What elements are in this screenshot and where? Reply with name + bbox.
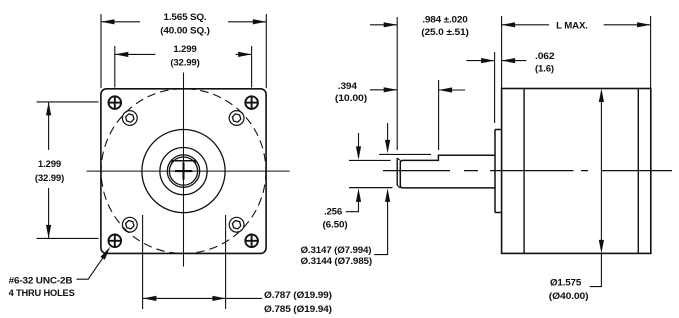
dim .984 / L MAX extension line at mounting face: [501, 16, 503, 88]
svg-text:Ø.785 (Ø19.94): Ø.785 (Ø19.94): [264, 304, 332, 315]
L MAX dimension line left arrow (shared with .984 right arrow): [502, 22, 549, 27]
rear endbell line: [637, 89, 639, 254]
dim .256 bottom arrow (up) and leader to text: [346, 188, 361, 211]
dim .394 left arrow: [370, 87, 397, 92]
svg-text:1.299: 1.299: [38, 159, 61, 170]
L MAX right extension line: [650, 16, 652, 88]
svg-text:#6-32 UNC-2B: #6-32 UNC-2B: [9, 276, 73, 287]
svg-text:(Ø40.00): (Ø40.00): [549, 291, 589, 302]
dim .062 right arrow: [502, 58, 527, 63]
corner hole top-left: [108, 96, 122, 110]
dim .984 left outside arrow: [370, 22, 397, 27]
shaft outer circle: [167, 155, 199, 187]
svg-text:(10.00): (10.00): [335, 93, 367, 104]
svg-text:(1.6): (1.6): [535, 64, 554, 75]
dimension 1.565 SQ extension lines: [101, 14, 266, 88]
hex screw bottom-right: [229, 217, 244, 232]
corner hole bottom-right: [245, 234, 259, 248]
dimension 1.299 horizontal line with arrows: [115, 52, 252, 57]
dimension 1.299 horizontal extension lines: [115, 46, 252, 88]
flange square outline: [101, 89, 266, 254]
dimension 1.299 vertical extension lines: [37, 102, 99, 239]
boss bottom edge: [495, 212, 502, 214]
vertical centerline front view: [183, 73, 185, 267]
pilot diameter dimension line with arrows: [143, 296, 262, 301]
dim .256 top arrow (down): [356, 133, 361, 160]
svg-text:(32.99): (32.99): [170, 58, 199, 69]
shaft end chamfer top: [397, 158, 400, 160]
pilot boss circle: [142, 130, 225, 213]
L MAX dimension line right arrow: [604, 22, 651, 27]
shaft outline (flat up, step at runout): [400, 155, 495, 188]
svg-text:(40.00 SQ.): (40.00 SQ.): [160, 25, 210, 36]
shaft end face: [396, 158, 398, 185]
body dia dimension line with arrows: [590, 89, 604, 287]
svg-text:.062: .062: [535, 51, 555, 62]
svg-text:.394: .394: [338, 81, 358, 92]
svg-text:4 THRU HOLES: 4 THRU HOLES: [9, 288, 76, 299]
corner hole top-right: [245, 96, 259, 110]
horizontal centerline front view: [87, 170, 290, 172]
svg-text:.256: .256: [324, 207, 342, 218]
hex screw top-left: [122, 111, 137, 126]
hex screw top-right: [229, 111, 244, 126]
dimension 1.299 vertical line with arrows: [46, 102, 51, 239]
shaft flat chord: [172, 161, 196, 163]
dim .062 left arrow: [466, 58, 494, 63]
svg-text:.984 ±.020: .984 ±.020: [422, 15, 467, 26]
side centerline: [383, 170, 672, 172]
shaft dia bottom arrow (up) and leader to text: [374, 188, 390, 254]
svg-text:L MAX.: L MAX.: [556, 21, 588, 32]
pilot diameter extension lines: [143, 215, 226, 309]
boss top edge: [495, 129, 502, 131]
svg-text:Ø.787 (Ø19.99): Ø.787 (Ø19.99): [264, 290, 332, 301]
boss front face: [494, 130, 496, 213]
front endbell line: [523, 89, 525, 254]
dimension 1.565 SQ dimension line with arrows: [101, 19, 266, 24]
svg-text:Ø.3147 (Ø7.994): Ø.3147 (Ø7.994): [301, 245, 372, 256]
motor body outline: [502, 89, 651, 254]
shaft top extension line: [379, 153, 431, 155]
svg-text:(25.0 ±.51): (25.0 ±.51): [421, 27, 469, 38]
svg-text:(32.99): (32.99): [35, 173, 64, 184]
svg-text:1.565 SQ.: 1.565 SQ.: [164, 12, 207, 23]
center cross mark: [175, 163, 192, 180]
shaft bottom extension line: [349, 187, 393, 189]
dim .394 extension line at flat step: [438, 80, 440, 150]
corner hole bottom-left: [108, 234, 122, 248]
shaft dia top arrow (down): [385, 123, 390, 153]
dim .394 right arrow: [439, 87, 465, 92]
bearing boss circle: [160, 148, 207, 195]
dim .984 extension line at shaft end: [396, 17, 398, 150]
note leader line with arrow: [77, 247, 111, 280]
flat level extension line: [349, 159, 391, 161]
svg-text:Ø1.575: Ø1.575: [550, 278, 582, 289]
shaft end chamfer bottom: [397, 185, 400, 188]
svg-text:1.299: 1.299: [173, 44, 196, 55]
svg-text:(6.50): (6.50): [323, 219, 348, 230]
svg-text:Ø.3144 (Ø7.985): Ø.3144 (Ø7.985): [301, 256, 373, 267]
dim .062 extension line boss face: [494, 52, 496, 123]
shaft inner circle: [169, 157, 197, 185]
hex screw bottom-left: [122, 217, 137, 232]
motor body dashed circle: [101, 89, 266, 254]
